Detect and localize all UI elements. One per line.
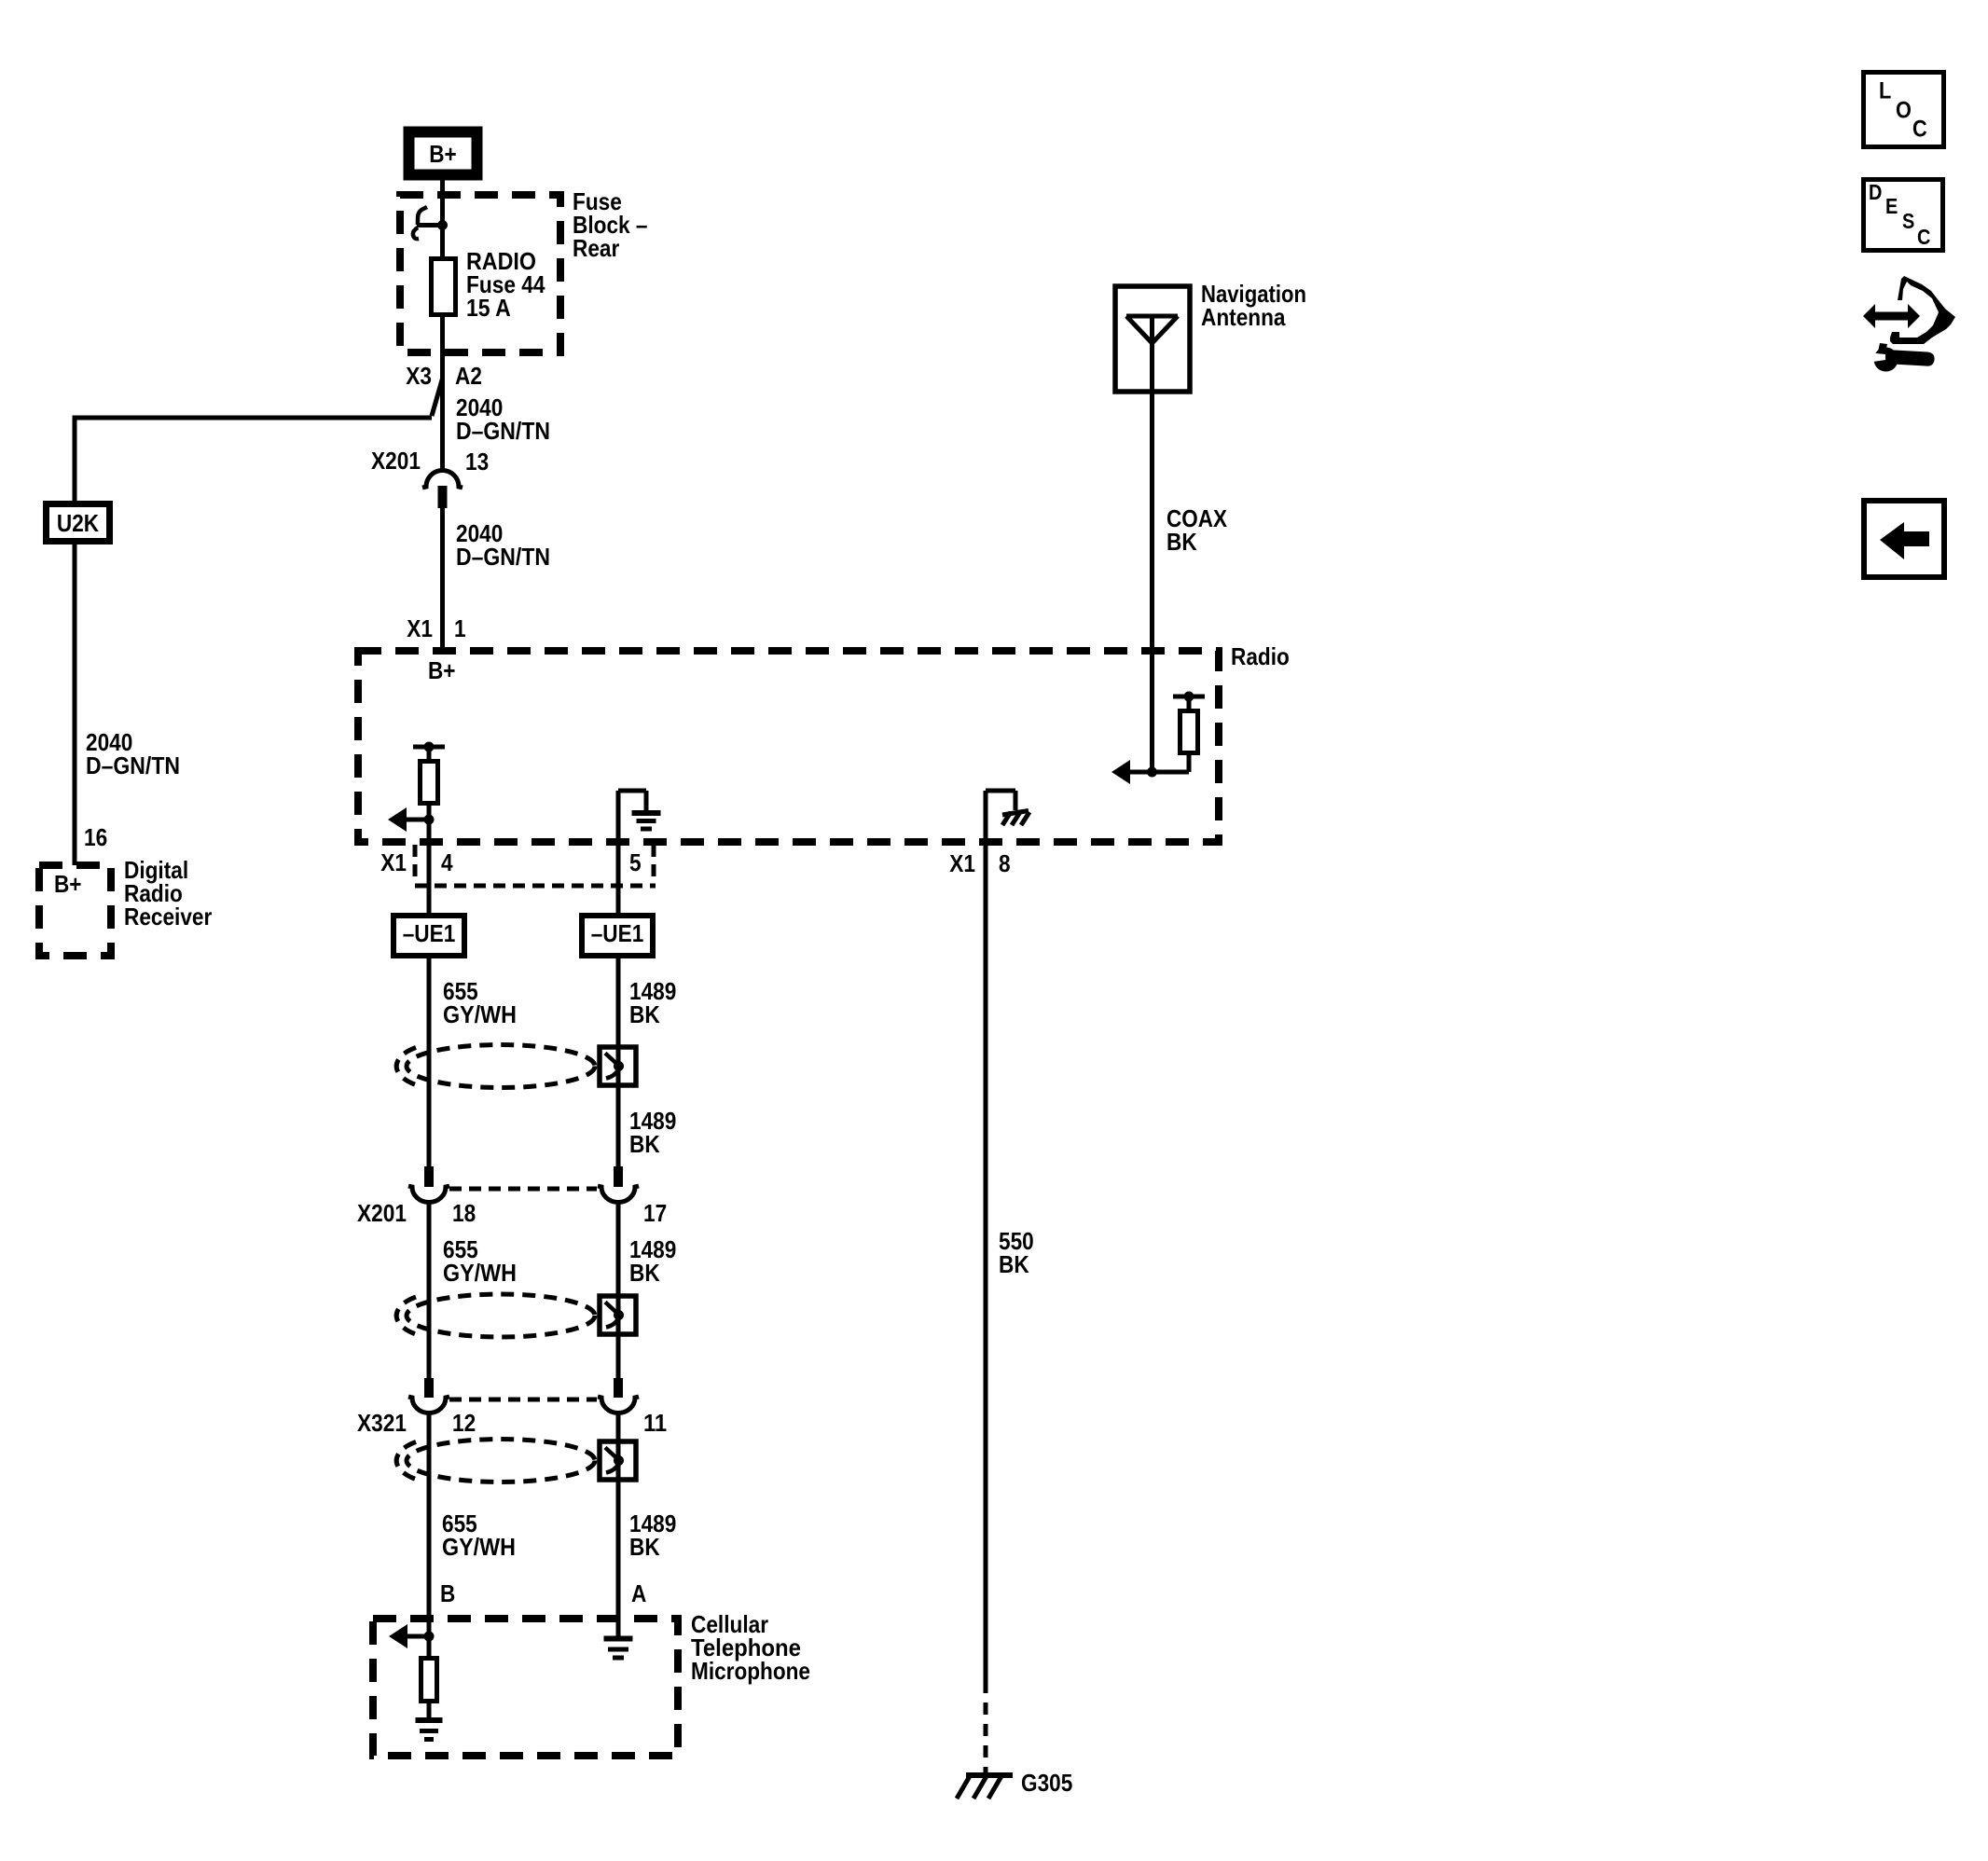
svg-text:12: 12: [452, 1409, 476, 1437]
fuse block - rear dashed box: [400, 195, 560, 352]
shield drain box 1: [600, 1047, 636, 1085]
radio pin4 feed resistor: [427, 747, 432, 761]
junction dot at fuse tap: [437, 220, 448, 230]
shield ellipse 1: [407, 1045, 595, 1088]
svg-text:C: C: [1912, 116, 1927, 142]
wire B+ box to fuse block: [440, 180, 445, 198]
wire 550 BK dashed: [984, 1681, 988, 1772]
shield drain box 3: [600, 1441, 636, 1480]
wire 655 segment 3: [427, 1413, 432, 1636]
svg-text:BK: BK: [629, 1000, 660, 1028]
svg-text:L: L: [1879, 77, 1891, 103]
wire branch down to U2K: [73, 416, 77, 506]
back arrow icon: [1880, 522, 1929, 559]
svg-text:X1: X1: [407, 614, 433, 642]
ground G305 symbol: [966, 1772, 1013, 1778]
connector X321 dashed tie: [449, 1398, 597, 1402]
DESC icon box: [1864, 180, 1943, 251]
svg-text:GY/WH: GY/WH: [443, 1000, 517, 1028]
connector X201-17 pin: [614, 1166, 623, 1187]
svg-text:–UE1: –UE1: [591, 919, 644, 947]
wire 1489 segment 1: [616, 956, 621, 1168]
svg-text:BK: BK: [1167, 528, 1197, 556]
mic pin A earth ground: [604, 1636, 633, 1642]
coax wire inside radio: [1150, 647, 1154, 772]
radio pin4 feed wire: [427, 804, 432, 820]
svg-text:B: B: [440, 1579, 455, 1607]
wire 550 BK solid: [984, 846, 988, 1681]
svg-text:BK: BK: [629, 1130, 660, 1158]
svg-text:D: D: [1869, 180, 1882, 204]
navigation antenna box: [1115, 286, 1190, 392]
svg-text:X321: X321: [357, 1409, 407, 1437]
svg-text:S: S: [1902, 209, 1914, 233]
svg-text:A2: A2: [455, 362, 482, 390]
mic junction dot: [424, 1632, 435, 1642]
svg-text:13: 13: [465, 448, 489, 476]
svg-text:17: 17: [643, 1199, 667, 1227]
coax feed T-bar: [1187, 696, 1192, 711]
coax arrow: [1126, 770, 1189, 775]
wire tap to fuse: [440, 195, 445, 260]
radio pin4 arrow: [403, 818, 429, 822]
svg-text:E: E: [1885, 194, 1898, 218]
svg-text:B+: B+: [428, 656, 456, 684]
svg-text:B+: B+: [429, 140, 457, 168]
antenna symbol: [1126, 314, 1178, 319]
svg-text:8: 8: [999, 849, 1011, 877]
shield ellipse 3: [407, 1440, 595, 1482]
svg-text:X1: X1: [949, 849, 975, 877]
svg-text:16: 16: [84, 823, 107, 851]
wire radio pin5 to UE1: [616, 846, 621, 916]
connector X201-13 socket: [422, 471, 462, 489]
wire 1489 segment 3: [616, 1413, 621, 1638]
svg-text:Rear: Rear: [573, 234, 619, 262]
radio dashed box: [358, 651, 1219, 842]
branch diagonal wire: [432, 379, 443, 416]
LOC icon box: [1864, 73, 1944, 147]
connector X201-18 socket: [408, 1186, 449, 1203]
coax feed resistor: [1187, 755, 1192, 772]
radio pin4 feed dot: [424, 742, 435, 752]
U2K box: [47, 504, 110, 542]
svg-text:X201: X201: [357, 1199, 407, 1227]
svg-text:X3: X3: [406, 362, 432, 390]
radio pin5 ground hook: [616, 791, 621, 846]
svg-text:11: 11: [643, 1409, 667, 1437]
connector X321-12 socket: [408, 1397, 449, 1413]
svg-text:Radio: Radio: [1231, 642, 1290, 670]
connector X321-11 pin: [614, 1378, 623, 1398]
svg-text:G305: G305: [1021, 1769, 1072, 1797]
wire fuse to block edge: [440, 315, 445, 382]
mic resistor ground: [427, 1702, 432, 1719]
wire U2K to receiver: [73, 539, 77, 865]
coax junction dot: [1147, 767, 1157, 778]
svg-text:B+: B+: [54, 870, 82, 898]
coax entry dot: [1148, 647, 1156, 655]
svg-text:C: C: [1917, 225, 1930, 249]
svg-text:18: 18: [452, 1199, 476, 1227]
branch horizontal wire: [75, 416, 432, 420]
svg-text:GY/WH: GY/WH: [442, 1533, 516, 1561]
option box -UE1 left: [393, 916, 464, 956]
wire radio pin4 to UE1: [427, 846, 432, 916]
bus tap symbol in fuse block: [418, 207, 427, 225]
connector X201-18 pin: [424, 1166, 434, 1187]
wire 655 segment 1: [427, 956, 432, 1168]
connector X201 dashed tie: [449, 1187, 597, 1192]
svg-text:D–GN/TN: D–GN/TN: [456, 543, 550, 571]
svg-text:X201: X201: [371, 447, 421, 475]
connector X201-17 socket: [598, 1186, 639, 1203]
svg-text:1: 1: [454, 614, 466, 642]
wire 655 segment 2: [427, 1203, 432, 1380]
digital radio receiver dashed box: [39, 865, 111, 956]
svg-text:4: 4: [441, 848, 453, 876]
svg-text:BK: BK: [629, 1259, 660, 1287]
radio pin8 chassis ground: [1002, 811, 1029, 816]
wire X201 to radio pin1: [440, 508, 445, 647]
wire fuse to connector X201: [440, 381, 445, 470]
svg-text:U2K: U2K: [57, 509, 99, 537]
svg-text:Antenna: Antenna: [1201, 303, 1286, 331]
option box -UE1 right: [582, 916, 653, 956]
svg-text:Microphone: Microphone: [691, 1657, 810, 1685]
svg-text:15 A: 15 A: [466, 294, 511, 322]
wire 1489 segment 2: [616, 1203, 621, 1380]
connector X321-11 socket: [598, 1397, 639, 1413]
shield ellipse 2: [407, 1294, 595, 1337]
svg-text:BK: BK: [629, 1533, 660, 1561]
svg-text:O: O: [1896, 97, 1912, 123]
radio pin4 wire to edge: [427, 820, 432, 846]
X1 connector dotted box: [413, 845, 418, 884]
svg-text:–UE1: –UE1: [403, 919, 456, 947]
mic arrow: [404, 1634, 429, 1639]
radio pin4 feed T-bar: [413, 745, 445, 750]
svg-text:5: 5: [629, 848, 642, 876]
coax wire antenna to radio: [1150, 392, 1154, 647]
svg-text:Receiver: Receiver: [124, 903, 212, 930]
radio pin5 earth ground: [632, 810, 661, 816]
svg-text:D–GN/TN: D–GN/TN: [456, 417, 550, 445]
diagnostic icon: [1863, 304, 1920, 328]
fuse RADIO Fuse 44 15A: [432, 259, 456, 315]
connector X201-13 pin: [438, 486, 448, 508]
mic resistor: [427, 1636, 432, 1658]
cellular telephone microphone dashed box: [373, 1619, 678, 1756]
svg-text:D–GN/TN: D–GN/TN: [86, 751, 180, 779]
power feed B+ box: [404, 127, 482, 180]
radio pin4 junction dot: [424, 815, 435, 825]
svg-text:X1: X1: [380, 848, 407, 876]
svg-text:A: A: [631, 1579, 646, 1607]
back arrow icon box: [1864, 501, 1944, 577]
shield drain box 2: [600, 1296, 636, 1334]
radio pin8 ground hook: [984, 791, 988, 846]
svg-text:BK: BK: [999, 1250, 1029, 1278]
connector X321-12 pin: [424, 1378, 434, 1398]
svg-text:GY/WH: GY/WH: [443, 1259, 517, 1287]
